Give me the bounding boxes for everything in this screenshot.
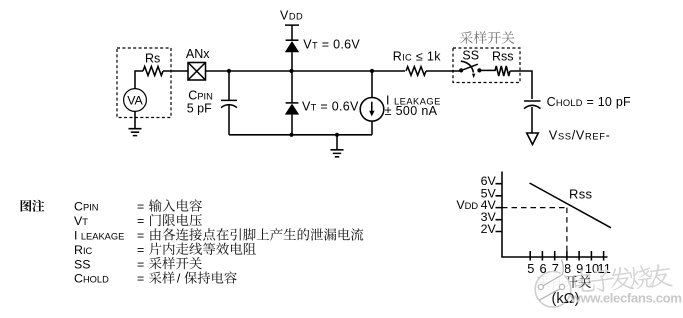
- svg-text:CHOLD = 10 pF: CHOLD = 10 pF: [547, 95, 631, 109]
- watermark logo circle: [535, 272, 571, 308]
- node C: [370, 69, 374, 73]
- diode D2 (clamp to VSS) VT = 0.6V: [291, 71, 293, 103]
- wire: [135, 71, 143, 89]
- graph y ticks: [496, 184, 503, 232]
- svg-text:SS: SS: [462, 48, 479, 62]
- svg-text:=: =: [137, 272, 144, 286]
- VSS/VREF- terminal: [527, 133, 539, 145]
- wire: [510, 71, 532, 99]
- svg-text:=: =: [137, 257, 144, 271]
- svg-text:VT = 0.6V: VT = 0.6V: [303, 37, 360, 51]
- svg-text:VSS/VREF-: VSS/VREF-: [549, 128, 611, 142]
- svg-text:ANx: ANx: [186, 47, 210, 61]
- ground: [129, 111, 142, 135]
- watermark switch contacts: [538, 284, 543, 289]
- svg-text:VDD: VDD: [456, 198, 478, 212]
- current source I LEAKAGE ±500nA: [371, 71, 373, 98]
- bottom rail wire: [229, 134, 372, 136]
- svg-text:VDD: VDD: [280, 9, 303, 23]
- label: sampling switch (grey): [460, 31, 514, 44]
- ground: [331, 135, 344, 157]
- svg-text:=: =: [137, 200, 144, 214]
- svg-text:=: =: [137, 214, 144, 228]
- graph axes: [502, 172, 608, 258]
- svg-text:CPIN: CPIN: [188, 89, 213, 103]
- legend title: [21, 200, 45, 212]
- junction dot rail/ground: [335, 133, 339, 137]
- svg-text:± 500 nA: ± 500 nA: [385, 104, 438, 118]
- Rss curve: [530, 183, 612, 228]
- svg-text:RIC ≤ 1k: RIC ≤ 1k: [393, 49, 442, 63]
- diode D1 (clamp to VDD) VT = 0.6V: [286, 39, 299, 41]
- svg-text:=: =: [137, 229, 144, 243]
- svg-text:2V: 2V: [481, 222, 497, 236]
- svg-text:5: 5: [527, 261, 534, 276]
- svg-text:VT: VT: [74, 214, 88, 228]
- svg-text:CPIN: CPIN: [74, 200, 98, 214]
- wire: [206, 70, 292, 72]
- watermark switch blade with halo: [543, 260, 563, 286]
- svg-text:Rss: Rss: [492, 50, 514, 64]
- svg-text:Rs: Rs: [145, 51, 160, 65]
- graph x-axis caption (partly behind watermark): [537, 275, 591, 288]
- source box (dashed): [117, 48, 171, 118]
- wire: [292, 70, 406, 72]
- capacitor CHOLD = 10 pF: [524, 100, 541, 102]
- junction dot rail/D2: [289, 133, 293, 137]
- dashed guides at 4V / 8k: [502, 208, 567, 257]
- svg-text:Rss: Rss: [569, 186, 592, 201]
- svg-text:/: /: [177, 272, 181, 286]
- svg-text:VT = 0.6V: VT = 0.6V: [302, 100, 359, 114]
- svg-text:www.elecfans.com: www.elecfans.com: [570, 291, 682, 306]
- svg-text:VA: VA: [127, 93, 143, 107]
- svg-text:CHOLD: CHOLD: [74, 272, 109, 286]
- svg-text:SS: SS: [74, 257, 91, 271]
- graph x ticks: [530, 251, 603, 261]
- svg-text:RIC: RIC: [74, 243, 93, 257]
- svg-text:I LEAKAGE: I LEAKAGE: [74, 229, 124, 243]
- sampling switch box (dashed): [453, 48, 520, 83]
- wire: [163, 70, 188, 72]
- voltage source VA: [124, 89, 147, 112]
- node B: [289, 69, 293, 73]
- svg-text:5 pF: 5 pF: [187, 102, 212, 116]
- watermark brand text: [573, 263, 673, 294]
- node A: [227, 69, 231, 73]
- wire: [426, 70, 461, 72]
- svg-text:=: =: [137, 243, 144, 257]
